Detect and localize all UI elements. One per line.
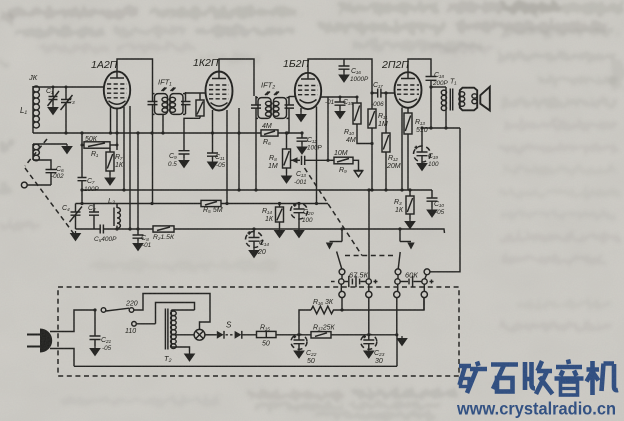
junction dot C23: [367, 333, 370, 336]
ground below C10: [427, 208, 436, 217]
ground below R14: [275, 228, 284, 237]
rectifier S diode2: [226, 331, 257, 339]
wire V1 pin to B2: [123, 107, 125, 190]
tap 110 terminal: [132, 322, 156, 327]
wire bus B4: [76, 229, 445, 233]
wire L1 bottom to bus: [32, 128, 34, 133]
ground below R7: [105, 176, 114, 185]
junction dot chassis: [395, 333, 398, 336]
wire R8 to C13 with arrow: [291, 157, 301, 163]
antenna coil L1: [33, 86, 39, 128]
wire L1 top to V1 grid node: [33, 86, 104, 88]
wire T2 tap to lamp: [171, 334, 194, 336]
electrolytic capacitor C20 100: [291, 203, 308, 228]
resistor R14 1K: [276, 204, 284, 229]
switch1 lever and terminal: [337, 252, 345, 275]
ground below C9: [179, 158, 188, 167]
IF transformer IFT2: [251, 92, 294, 119]
ground below V3: [296, 112, 305, 121]
wire T1 bottom line: [422, 127, 460, 129]
ground at chassis node: [397, 336, 406, 345]
resistor R16 3K zigzag: [311, 298, 424, 314]
resistor R6 4M in B1: [261, 130, 278, 136]
dashed gang line left: [25, 139, 74, 234]
pilot lamp: [194, 329, 217, 340]
wire bus B3: [76, 203, 329, 205]
capacitor C12 100P: [297, 133, 308, 145]
resistor R7 1K: [106, 148, 114, 175]
wire socket3 to chassis node: [396, 298, 398, 367]
wire V2 plate to IFT2: [219, 59, 254, 96]
ground below R3: [405, 219, 414, 228]
junction dot R16 line: [340, 308, 343, 311]
switch2 lever and terminal: [395, 252, 401, 275]
ground below C15: [335, 109, 344, 118]
resistor R10 4M: [353, 97, 372, 144]
ground below C20: [294, 228, 303, 237]
wire socket4 down: [423, 298, 425, 310]
wire vertical x138: [137, 133, 139, 229]
speaker: [480, 87, 490, 111]
wire V4 plate to C18: [408, 59, 431, 76]
tube V2 1K2P: [206, 72, 233, 111]
wire V1 pin to R1: [116, 108, 118, 151]
watermark chinese characters: [459, 360, 618, 396]
capacitor C2: [89, 204, 99, 230]
resistor R15 50: [257, 331, 312, 337]
battery B2 60V: [395, 276, 434, 287]
wire L1b bottom to C6: [33, 160, 51, 169]
resistor R4 5M: [196, 93, 204, 118]
electrolytic capacitor C19 100: [414, 128, 431, 162]
battery B1 67.5V: [331, 276, 378, 287]
output transformer T1: [441, 87, 477, 128]
wire V1 pin right to B4: [129, 106, 131, 229]
wire bus B1: [33, 132, 302, 134]
wire V3 plate to C16 and V4 coupling: [308, 59, 372, 93]
dashed gang linkage: [305, 168, 395, 256]
AC plug: [27, 329, 52, 353]
rectifier S diode1: [217, 331, 224, 339]
capacitor C1 (trimmer): [48, 87, 60, 106]
capacitor C7: [78, 133, 87, 204]
resistor R3 1K: [406, 190, 414, 219]
ground below C23: [364, 349, 373, 358]
wire C18 to T1 bottom node: [430, 81, 432, 128]
ground below C19: [417, 161, 426, 170]
capacitor C6: [46, 170, 57, 186]
wire switch2 feed from B4: [399, 229, 401, 242]
wire plug to line1: [50, 310, 95, 332]
wire IFT2 secondary to V3 grid: [289, 96, 295, 98]
wire IFT2 right bottom to B1: [287, 118, 289, 134]
wire screen line x328: [327, 97, 329, 160]
resistor R11 1M: [368, 93, 376, 190]
ground below C8: [133, 241, 142, 250]
ground below C11: [208, 160, 217, 169]
wire C13 node to R9: [328, 159, 334, 161]
wire L1b top to ground: [33, 143, 67, 145]
wire socket1 down: [341, 298, 343, 310]
capacitor C3 (variable): [61, 87, 73, 133]
ground at T2 bottom: [185, 352, 194, 361]
wire R4 bottom to C9: [184, 118, 200, 150]
ground at L1b top wire: [62, 144, 71, 153]
wire switch1 feed from B4: [341, 229, 343, 242]
wire bus B2: [82, 189, 432, 191]
variable capacitor C4: [70, 204, 83, 230]
wire IFT1 left cap bottom to B3: [152, 114, 154, 204]
electrolytic capacitor C22 50: [291, 334, 307, 349]
wire switch terminals to battery: [341, 275, 426, 292]
wire V3 screen line: [321, 96, 357, 98]
ground below C21: [90, 346, 99, 355]
junction dots: [52, 85, 448, 230]
electrolytic capacitor C23 30: [361, 334, 377, 349]
IF transformer IFT1: [148, 88, 191, 115]
ground below C22: [294, 349, 303, 358]
wire T2 bottom to ground: [171, 347, 189, 352]
wire IFT1 secondary to V2 grid: [186, 92, 206, 94]
antenna terminal: [21, 182, 27, 188]
wire 220 tap to T2 top rail: [134, 294, 210, 330]
wire feed to battery tap: [368, 190, 370, 279]
capacitor C9: [179, 151, 190, 158]
ground below C16: [339, 73, 348, 82]
wire V3 pin long to B3: [316, 107, 318, 204]
battery plug sockets row: [339, 291, 428, 297]
ground below C1: [48, 105, 57, 114]
capacitor C13 .001: [302, 156, 329, 165]
battery plug circle right: [424, 269, 430, 275]
wire B+ rail right: [430, 128, 460, 272]
wire V2 pin to B2: [238, 108, 240, 190]
ground hook after R9: [354, 171, 364, 177]
resistor R13 510: [404, 108, 412, 190]
junction dot C22: [297, 333, 300, 336]
capacitor C8: [133, 229, 144, 241]
power supply dashed box: [58, 287, 459, 376]
ground below C4: [71, 231, 80, 240]
wire V2 pin to B3: [226, 110, 228, 204]
capacitor C18 200P: [426, 77, 437, 81]
resistor R5 5M in B3: [201, 200, 221, 206]
wire bottom rail: [74, 365, 397, 367]
oscillator coil L2: [114, 204, 120, 230]
wire plug to line2: [50, 349, 74, 367]
coupling coil L1b: [33, 144, 39, 161]
wire socket2 down to C23 node: [368, 298, 370, 335]
tube V4 2P2P: [395, 72, 422, 108]
wire V2 pin to B1: [212, 110, 214, 133]
wire IFT1 primary bottom to B1: [162, 114, 164, 133]
wire V3 pin to ground arrow: [300, 108, 302, 112]
resistor R8 1M: [283, 133, 291, 174]
wire T1 primary top: [431, 86, 446, 88]
junction dot C21: [93, 308, 96, 311]
capacitor C15 .01: [335, 97, 346, 109]
wire IFT2 left bottom to B2: [255, 118, 257, 191]
resistor R2 1.5K in B4: [153, 226, 174, 232]
voltage selector switch 220: [101, 308, 134, 313]
wire V1 plate to IFT1: [117, 59, 153, 92]
wire 110 tap riser to T2 top: [156, 303, 195, 324]
resistor R9 10M: [334, 157, 359, 170]
power transformer T2: [165, 309, 194, 350]
ground below R8: [282, 174, 291, 183]
tube V3 1B2P: [295, 73, 321, 110]
capacitor C5 400P in B4: [100, 225, 103, 234]
resistor R12 20M: [382, 93, 390, 190]
wire C22 node up to R16: [299, 310, 311, 335]
switch1 contact bracket: [326, 242, 342, 250]
wire V1 pin left to B1: [110, 107, 112, 133]
capacitor C11: [207, 133, 218, 160]
electrolytic capacitor C14 20: [246, 229, 263, 248]
resistor R17 25K: [311, 332, 397, 338]
ground below C12: [297, 145, 306, 154]
ground below C14: [249, 248, 258, 257]
capacitor C17 .006: [372, 89, 395, 98]
resistor R1 50K: [82, 142, 117, 148]
tube V1 1A2P: [104, 71, 130, 108]
switch2 contact bracket: [400, 242, 415, 250]
wire C6 to antenna terminal: [28, 184, 52, 186]
wire V4 pin to B2: [401, 108, 403, 191]
capacitor C16 1000P: [339, 59, 350, 73]
capacitor C10 .05: [427, 190, 438, 208]
capacitor C21 .05: [90, 310, 101, 346]
